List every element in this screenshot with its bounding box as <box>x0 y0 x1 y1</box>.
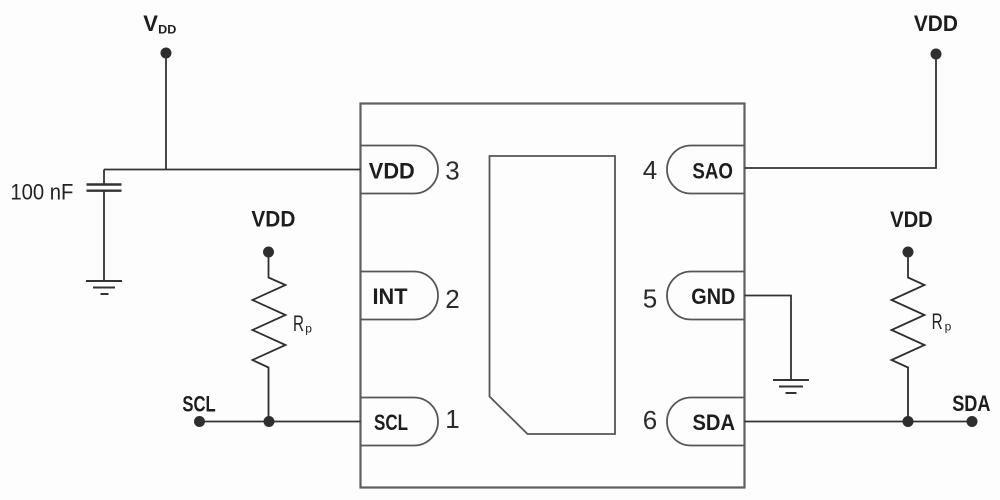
capacitor C1 plates <box>87 185 122 191</box>
svg-text:p: p <box>945 320 952 334</box>
svg-text:R: R <box>932 309 943 334</box>
ground symbol right <box>773 380 809 393</box>
svg-text:INT: INT <box>373 284 409 309</box>
svg-text:V: V <box>143 11 158 36</box>
junction dot SDA / R_p <box>903 416 914 427</box>
terminal dot SCL <box>194 416 205 427</box>
capacitor C1 bottom lead <box>103 191 105 281</box>
chip package outline U1 <box>361 104 745 488</box>
pin INT (pin 2) shape <box>361 272 439 320</box>
node dot right pull-up VDD <box>903 247 914 258</box>
node dot VDD top-right <box>931 49 942 60</box>
wire top-left horizontal to pin VDD <box>104 169 361 171</box>
die orientation shape inside package <box>490 156 616 434</box>
svg-text:SAO: SAO <box>692 158 733 183</box>
pin SCL (pin 1) shape <box>361 398 439 446</box>
pin VDD (pin 3) shape <box>361 146 439 194</box>
svg-text:1: 1 <box>445 404 459 434</box>
svg-text:6: 6 <box>643 405 657 435</box>
svg-text:VDD: VDD <box>369 158 415 183</box>
node dot V_DD <box>161 48 172 59</box>
ground symbol left <box>86 281 122 294</box>
pin SDA (pin 6) shape <box>667 398 745 446</box>
node dot left pull-up VDD <box>263 247 274 258</box>
junction dot SCL / R_p <box>264 416 275 427</box>
svg-text:3: 3 <box>445 156 459 186</box>
svg-text:p: p <box>305 322 312 336</box>
wire SCL horizontal <box>200 421 361 423</box>
wire V_DD vertical <box>165 53 167 170</box>
wire GND pin to ground <box>745 296 792 380</box>
wire VDD to pin SAO <box>745 54 937 168</box>
resistor R_p right (zigzag with leads) <box>892 252 925 422</box>
svg-text:4: 4 <box>643 155 657 185</box>
svg-text:VDD: VDD <box>914 11 958 36</box>
svg-text:VDD: VDD <box>890 207 933 232</box>
svg-text:SDA: SDA <box>952 391 990 416</box>
capacitor C1 top lead <box>103 170 105 184</box>
pin SAO (pin 4) shape <box>667 146 745 194</box>
svg-text:R: R <box>293 311 304 336</box>
wire SDA horizontal <box>745 421 973 423</box>
svg-text:2: 2 <box>445 284 459 314</box>
svg-text:GND: GND <box>691 284 735 309</box>
resistor R_p left (zigzag with leads) <box>253 252 286 422</box>
svg-text:100 nF: 100 nF <box>10 179 73 204</box>
pin GND (pin 5) shape <box>667 272 745 320</box>
svg-text:SCL: SCL <box>374 410 408 435</box>
svg-text:VDD: VDD <box>251 207 295 232</box>
terminal dot SDA <box>967 416 978 427</box>
svg-text:SCL: SCL <box>182 392 215 417</box>
svg-text:5: 5 <box>643 284 657 314</box>
svg-text:DD: DD <box>158 23 177 37</box>
svg-text:SDA: SDA <box>693 410 736 435</box>
